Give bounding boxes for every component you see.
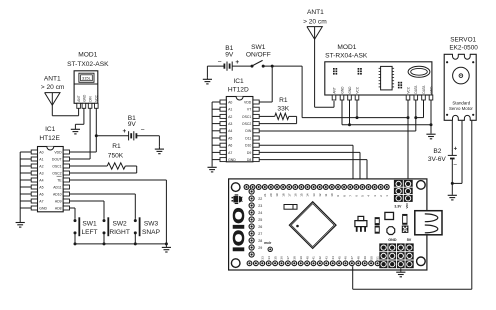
svg-text:A5: A5: [228, 136, 232, 140]
svg-text:33: 33: [261, 256, 265, 260]
IC U2 HT12D decoder: [220, 97, 259, 162]
wire AD8 to SW1: [70, 208, 76, 219]
node TX supply junction: [95, 134, 98, 137]
svg-text:40: 40: [305, 256, 309, 260]
svg-text:12: 12: [318, 193, 322, 197]
svg-text:A1: A1: [39, 157, 43, 161]
svg-text:SERVO1: SERVO1: [450, 36, 476, 43]
svg-text:A0: A0: [39, 150, 43, 154]
ground (battery B1 TX): [155, 146, 164, 153]
battery B1 (receiver, 9V): [224, 62, 232, 71]
transmitter module MOD1 ST-TX02-ASK: [74, 71, 99, 109]
wire IOIO servo signal: [353, 121, 472, 290]
svg-text:3.3V: 3.3V: [394, 204, 402, 208]
svg-text:50: 50: [369, 256, 373, 260]
switch SW2 RIGHT: [103, 217, 109, 244]
wire HT12D address pins bus to ground: [212, 102, 220, 166]
svg-text:A0: A0: [228, 100, 232, 104]
svg-text:25: 25: [258, 218, 262, 222]
svg-text:44: 44: [331, 256, 335, 260]
wire D8 to IOIO: [259, 160, 367, 185]
IOIO PIC microcontroller (rotated chip): [289, 202, 336, 249]
wire RX VCC-right down to IOIO VIN: [407, 100, 409, 180]
svg-text:A3: A3: [228, 122, 232, 126]
svg-text:46: 46: [344, 256, 348, 260]
svg-text:HT12D: HT12D: [228, 87, 249, 94]
wire battery B1 minus to ground: [136, 136, 159, 147]
svg-text:13: 13: [312, 193, 316, 197]
svg-text:VDD: VDD: [244, 100, 252, 104]
svg-text:VCC: VCC: [95, 94, 99, 101]
svg-text:MOD1: MOD1: [78, 52, 97, 59]
svg-text:EK2-0500: EK2-0500: [449, 45, 478, 52]
svg-text:ANT1: ANT1: [44, 76, 61, 83]
svg-text:11: 11: [324, 193, 328, 196]
ground (battery B1 RX): [203, 78, 212, 84]
svg-text:23: 23: [258, 204, 262, 208]
svg-text:LEFT: LEFT: [81, 229, 97, 236]
svg-text:315L: 315L: [82, 76, 92, 81]
receiver module MOD1 ST-RX04-ASK: [325, 62, 434, 100]
svg-text:TE: TE: [57, 178, 62, 182]
svg-text:A6: A6: [39, 192, 43, 196]
svg-text:42: 42: [318, 256, 322, 260]
svg-text:18: 18: [281, 193, 285, 197]
svg-text:19: 19: [275, 193, 279, 197]
node DATA junction: [414, 116, 417, 119]
svg-text:SW1: SW1: [82, 221, 97, 228]
svg-text:22: 22: [258, 197, 262, 201]
svg-text:ON/OFF: ON/OFF: [246, 51, 271, 58]
svg-text:GND: GND: [82, 94, 86, 102]
svg-text:+: +: [123, 128, 127, 135]
svg-text:IC1: IC1: [45, 126, 56, 133]
switch SW3 SNAP: [134, 217, 140, 244]
svg-text:SW3: SW3: [144, 221, 159, 228]
svg-text:15: 15: [300, 193, 304, 197]
svg-text:41: 41: [312, 256, 316, 260]
svg-text:D10: D10: [245, 144, 251, 148]
wire RX GND right pin to ground: [430, 100, 432, 133]
svg-text:ST-TX02-ASK: ST-TX02-ASK: [67, 61, 109, 68]
switch SW1 ON/OFF: [251, 60, 265, 67]
svg-text:AD9: AD9: [55, 199, 62, 203]
svg-text:A5: A5: [39, 185, 43, 189]
IOIO logo robot icon: [232, 194, 243, 204]
IOIO bottom pin header row: [247, 260, 381, 266]
wire VDD to supply node: [70, 136, 97, 152]
svg-text:A6: A6: [228, 144, 232, 148]
svg-text:D8: D8: [247, 158, 251, 162]
battery B2 (3V-6V): [448, 146, 458, 168]
svg-text:+: +: [235, 59, 239, 66]
resistor R1 750K: [70, 163, 137, 169]
svg-text:ANT: ANT: [332, 87, 336, 93]
svg-text:35: 35: [273, 256, 277, 260]
svg-text:3V-6V: 3V-6V: [428, 156, 447, 163]
svg-text:49: 49: [363, 256, 367, 260]
node RX vcc junctions: [356, 116, 359, 119]
ground (MOD1 TX gnd): [71, 124, 80, 134]
svg-text:DATA: DATA: [422, 85, 426, 94]
svg-text:OSC2: OSC2: [52, 171, 61, 175]
wire switch common bus: [75, 243, 166, 245]
svg-text:48: 48: [357, 256, 361, 260]
wire IOIO GND pad to ground: [400, 268, 402, 271]
svg-text:37: 37: [286, 256, 290, 260]
svg-text:43: 43: [325, 256, 329, 260]
svg-text:9V: 9V: [128, 121, 137, 128]
svg-text:39: 39: [299, 256, 303, 260]
IOIO top row pin numbers: [263, 193, 389, 197]
IOIO power header block (VIN/3.3V): [394, 180, 413, 202]
node VDD riser junction: [271, 65, 274, 68]
IOIO top pin header row: [244, 184, 390, 190]
IOIO bottom row pin numbers: [261, 256, 380, 260]
node bus junctions: [74, 242, 77, 245]
node B2 minus junction: [451, 182, 454, 185]
svg-text:DOUT: DOUT: [52, 157, 63, 161]
svg-text:A1: A1: [228, 108, 232, 112]
svg-text:> 20 cm: > 20 cm: [303, 18, 327, 25]
svg-text:−: −: [217, 59, 221, 66]
svg-text:A2: A2: [228, 115, 232, 119]
svg-text:9V: 9V: [225, 51, 234, 58]
svg-text:29: 29: [258, 246, 262, 250]
svg-text:GND: GND: [39, 206, 47, 210]
svg-text:A7: A7: [228, 151, 232, 155]
svg-text:ANT: ANT: [77, 95, 81, 101]
svg-text:D11: D11: [245, 136, 251, 140]
IOIO capacitor C1: [375, 218, 379, 225]
svg-text:RIGHT: RIGHT: [109, 229, 130, 236]
antenna ANT1 (transmitter): [45, 93, 60, 106]
wire AD9 to SW2: [70, 201, 105, 219]
svg-text:33K: 33K: [277, 106, 289, 113]
svg-text:IC1: IC1: [233, 78, 244, 85]
svg-text:A4: A4: [39, 178, 43, 182]
wire servo gnd: [452, 121, 462, 184]
switch SW1 LEFT: [74, 217, 80, 244]
ground (switch bus): [162, 244, 171, 252]
svg-text:GND: GND: [228, 158, 236, 162]
svg-text:36: 36: [280, 256, 284, 260]
IOIO USB connector: [415, 211, 442, 235]
svg-text:A2: A2: [39, 164, 43, 168]
svg-text:AD10: AD10: [53, 192, 62, 196]
svg-text:−: −: [453, 162, 457, 169]
IC U1 HT12E encoder: [31, 147, 69, 212]
wire DIN to DOUT: [70, 108, 90, 159]
svg-text:A4: A4: [228, 129, 232, 133]
wire DATA to HT12D DIN: [259, 130, 415, 132]
svg-text:DIN: DIN: [89, 96, 93, 102]
IOIO power header block (GND/5V): [379, 243, 413, 268]
ground (HT12E address bus): [16, 222, 25, 228]
svg-text:AD11: AD11: [53, 185, 61, 189]
svg-text:20: 20: [269, 193, 273, 197]
wire antenna to MOD1 ANT pin: [52, 105, 78, 116]
wire servo V+ to battery B2: [451, 121, 453, 151]
IOIO board outline: [229, 179, 427, 270]
ground (B2 battery): [448, 194, 457, 200]
svg-text:16: 16: [294, 193, 298, 197]
IOIO left column pin numbers: [258, 197, 262, 250]
battery B1 (transmitter, 9V): [129, 131, 137, 140]
svg-text:B2: B2: [433, 148, 441, 155]
wire B2 plates stubs: [451, 150, 453, 155]
svg-text:+: +: [454, 146, 458, 152]
svg-text:47: 47: [350, 256, 354, 260]
wire RX GND pins to ground: [342, 100, 431, 125]
svg-text:ST-RX04-ASK: ST-RX04-ASK: [325, 53, 368, 60]
svg-text:28: 28: [258, 239, 262, 243]
svg-text:GND: GND: [388, 238, 397, 242]
wire AD10 to SW3: [70, 194, 136, 219]
svg-text:VDD: VDD: [54, 150, 62, 154]
svg-text:HT12E: HT12E: [39, 135, 60, 142]
svg-text:GND: GND: [429, 86, 433, 94]
IOIO chip U4: [385, 212, 394, 219]
svg-text:45: 45: [337, 256, 341, 260]
ground (IOIO gnd): [396, 271, 405, 277]
IOIO fuse F1: [284, 205, 297, 210]
wire D9 to IOIO: [259, 152, 360, 184]
svg-text:mclr: mclr: [264, 241, 272, 245]
antenna ANT1 (receiver): [307, 27, 322, 40]
wire VCC to supply node: [95, 108, 97, 136]
servo motor SERVO1 EK2-0500: [444, 54, 476, 121]
wire battery to SW1 ON/OFF: [232, 65, 252, 67]
IOIO left pin header column: [249, 188, 255, 257]
svg-text:SW1: SW1: [251, 44, 266, 51]
svg-text:GND: GND: [340, 86, 344, 94]
ground (RX module gnd): [426, 133, 435, 139]
svg-text:SW2: SW2: [112, 221, 127, 228]
svg-text:VIN: VIN: [405, 203, 409, 208]
svg-text:A7: A7: [39, 199, 43, 203]
svg-text:AD8: AD8: [55, 206, 62, 210]
svg-text:750K: 750K: [108, 152, 124, 159]
svg-text:OSC1: OSC1: [242, 115, 251, 119]
svg-text:10: 10: [330, 193, 334, 197]
wire rail down to VCC feed: [302, 66, 408, 118]
svg-text:VCC: VCC: [406, 86, 410, 93]
svg-text:> 20 cm: > 20 cm: [41, 84, 65, 91]
IOIO tact switch: [402, 226, 409, 233]
svg-text:IOIO: IOIO: [229, 207, 247, 252]
wire TE to ground bus: [70, 180, 167, 244]
wire RX VCC-left riser: [356, 100, 358, 118]
svg-text:DIN: DIN: [245, 129, 251, 133]
svg-text:26: 26: [258, 225, 262, 229]
IOIO capacitor C3: [403, 214, 407, 224]
wire supply node to battery B1: [96, 135, 128, 137]
svg-text:5V: 5V: [407, 238, 412, 242]
wire MOD1 GND pin to ground: [75, 108, 84, 124]
svg-text:51: 51: [376, 256, 380, 260]
svg-text:21: 21: [263, 193, 267, 197]
svg-text:D9: D9: [247, 151, 251, 155]
IOIO capacitor C2: [375, 226, 379, 233]
svg-text:VCC: VCC: [355, 86, 359, 93]
svg-text:38: 38: [293, 256, 297, 260]
svg-text:27: 27: [258, 232, 262, 236]
svg-text:24: 24: [258, 211, 262, 215]
wire VDD riser: [259, 66, 272, 102]
svg-text:SNAP: SNAP: [142, 229, 161, 236]
wire HT12E address pins bus to ground: [20, 152, 31, 222]
svg-text:R1: R1: [279, 97, 288, 104]
IOIO button (octagon): [387, 227, 395, 235]
svg-text:Servo Motor: Servo Motor: [449, 106, 473, 111]
wire RX DATA pins tie: [416, 100, 424, 131]
wire R1 to OSC2: [70, 166, 137, 173]
svg-text:Standard: Standard: [452, 101, 470, 106]
wire battery B1 RX minus to ground: [207, 66, 224, 78]
svg-text:34: 34: [267, 256, 271, 260]
resistor R1 33K: [259, 113, 296, 119]
svg-text:−: −: [141, 127, 145, 134]
svg-text:R1: R1: [112, 143, 121, 150]
svg-text:DATA: DATA: [414, 85, 418, 94]
svg-text:14: 14: [306, 193, 310, 197]
wire SW1 to supply rail: [263, 65, 302, 67]
wire D10 to IOIO: [259, 145, 353, 184]
svg-text:A3: A3: [39, 171, 43, 175]
svg-text:ANT1: ANT1: [307, 9, 324, 16]
IOIO mounting holes: [231, 183, 240, 192]
wire R1 to OSC2 (RX): [259, 116, 296, 123]
ground (HT12D address bus): [208, 166, 217, 172]
svg-text:17: 17: [287, 193, 291, 197]
IOIO voltage regulator U3: [355, 216, 367, 231]
node RX gnd junctions: [348, 123, 351, 126]
svg-text:MOD1: MOD1: [337, 44, 356, 51]
svg-text:OSC2: OSC2: [242, 122, 251, 126]
wire antenna to RX ANT pin: [315, 39, 334, 107]
svg-text:OSC1: OSC1: [52, 164, 61, 168]
svg-text:GND: GND: [348, 86, 352, 94]
